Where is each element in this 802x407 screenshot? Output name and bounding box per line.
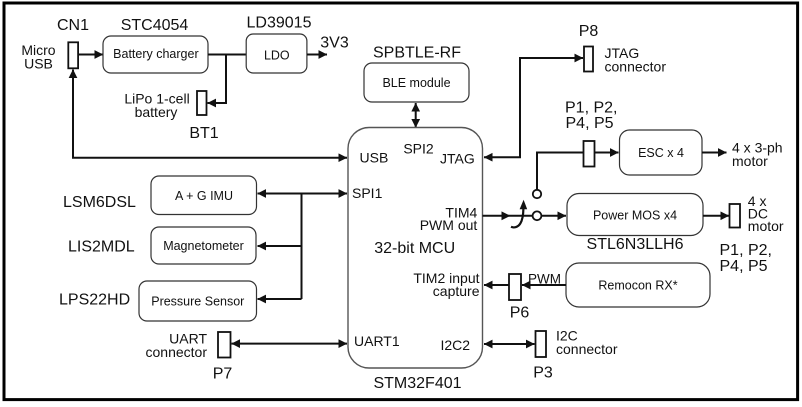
svg-text:P3: P3 — [533, 365, 553, 382]
wire P6 to MCU TIM2 — [484, 284, 509, 286]
switch lever arrow — [511, 200, 527, 228]
svg-text:JTAG: JTAG — [440, 151, 475, 167]
block U_press LPS22HD Pressure Sensor — [139, 281, 257, 321]
wire connector to ESC — [595, 152, 619, 154]
battery BT1 — [197, 91, 207, 115]
svg-text:battery: battery — [135, 104, 178, 120]
svg-text:connector: connector — [605, 59, 667, 75]
svg-text:capture: capture — [433, 283, 480, 299]
wire LDO to 3V3 — [307, 54, 327, 56]
svg-text:PWM out: PWM out — [420, 217, 478, 233]
wire upper contact to ESC connector — [537, 153, 584, 190]
block U_ldo LD39015 LDO — [246, 34, 307, 73]
wire junction to battery BT1 — [208, 55, 227, 104]
svg-text:LDO: LDO — [264, 49, 290, 63]
block Remocon RX* — [566, 263, 710, 307]
connector P1 P2 P4 P5 (ESC) — [584, 141, 595, 167]
svg-text:BLE module: BLE module — [382, 76, 450, 90]
label JTAG connector — [605, 45, 667, 75]
wire charger to LDO — [208, 54, 247, 56]
label P1, P2, P4, P5 (DC) — [720, 242, 772, 275]
svg-text:STL6N3LLH6: STL6N3LLH6 — [587, 236, 684, 253]
svg-text:P4, P5: P4, P5 — [566, 115, 614, 132]
svg-text:CN1: CN1 — [57, 17, 89, 34]
wire CN1 to battery charger — [79, 54, 104, 56]
block ESC x 4 — [620, 130, 703, 175]
svg-text:connector: connector — [146, 344, 208, 360]
wire JTAG: MCU to P8 — [484, 58, 583, 157]
label 4 x 3-ph motor — [732, 140, 783, 169]
wire lower contact to Power MOS — [541, 215, 566, 217]
svg-text:Power MOS x4: Power MOS x4 — [593, 209, 677, 223]
switch contact lower — [533, 211, 542, 220]
svg-text:SPBTLE-RF: SPBTLE-RF — [373, 45, 461, 62]
MCU U1 STM32F401 32-bit MCU — [348, 128, 483, 369]
svg-text:Remocon RX*: Remocon RX* — [598, 279, 677, 293]
label 4 x DC motor — [748, 193, 784, 234]
svg-text:SPI1: SPI1 — [352, 185, 383, 201]
connector P8 — [584, 47, 593, 72]
wire SPI1 tap to pressure sensor — [258, 298, 302, 300]
wire SPI1 bus vertical — [301, 194, 303, 300]
svg-text:BT1: BT1 — [189, 125, 218, 142]
svg-text:P1, P2,: P1, P2, — [565, 100, 617, 117]
svg-text:connector: connector — [556, 341, 618, 357]
connector P7 (UART) — [218, 332, 231, 358]
block U_charger STC4054 battery charger — [103, 36, 208, 73]
svg-text:PWM: PWM — [528, 272, 561, 287]
svg-text:motor: motor — [732, 153, 768, 169]
svg-text:P7: P7 — [213, 366, 233, 383]
arrowhead on TIM4 wire — [502, 211, 511, 220]
block U_ble SPBTLE-RF BLE module — [364, 63, 469, 102]
svg-text:P8: P8 — [579, 23, 599, 40]
wire Remocon to P6 — [522, 284, 566, 286]
svg-text:USB: USB — [24, 56, 53, 72]
pin TIM2 input capture — [413, 270, 479, 299]
connector P6 — [509, 274, 521, 300]
svg-text:SPI2: SPI2 — [403, 141, 434, 157]
connector P3 — [536, 331, 547, 357]
block U_mag LIS2MDL Magnetometer — [151, 227, 256, 264]
svg-text:3V3: 3V3 — [320, 35, 349, 52]
pin TIM4 PWM out — [420, 204, 478, 233]
svg-text:P1, P2,: P1, P2, — [720, 242, 772, 259]
block U_imu LSM6DSL A + G IMU — [151, 176, 257, 215]
svg-text:Magnetometer: Magnetometer — [163, 239, 244, 253]
switch contact upper — [533, 190, 541, 198]
svg-text:UART1: UART1 — [354, 333, 400, 349]
svg-text:32-bit MCU: 32-bit MCU — [374, 240, 455, 257]
wire SPI1 bus IMU to MCU — [258, 193, 348, 195]
wire ESC to 3-ph motor — [702, 152, 727, 154]
svg-text:I2C2: I2C2 — [441, 337, 471, 353]
svg-text:ESC x 4: ESC x 4 — [638, 146, 684, 160]
svg-text:A + G IMU: A + G IMU — [175, 189, 233, 203]
svg-text:Pressure Sensor: Pressure Sensor — [151, 295, 244, 309]
label UART connector — [146, 331, 208, 361]
label P1, P2, P4, P5 (ESC) — [565, 100, 617, 133]
svg-text:LIS2MDL: LIS2MDL — [68, 239, 135, 256]
wire SPI1 tap to magnetometer — [258, 245, 302, 247]
connector DC motor — [730, 204, 741, 228]
svg-text:P4, P5: P4, P5 — [720, 258, 768, 275]
block Power MOS x4 STL6N3LLH6 — [567, 194, 703, 236]
wire Power MOS to DC motor connector — [703, 215, 729, 217]
wire TIM4 PWM out of MCU — [483, 215, 533, 217]
wire USB: MCU to Micro USB connector — [73, 70, 347, 158]
label Micro USB — [21, 42, 55, 72]
svg-text:STC4054: STC4054 — [121, 17, 189, 34]
svg-text:P6: P6 — [510, 305, 530, 322]
svg-text:USB: USB — [360, 149, 389, 165]
wire I2C2: MCU to P3 — [484, 343, 535, 345]
label LiPo 1-cell battery — [124, 91, 189, 121]
svg-text:Battery charger: Battery charger — [113, 47, 198, 61]
connector CN1 (Micro USB) — [68, 42, 78, 68]
svg-text:LD39015: LD39015 — [247, 15, 312, 32]
label I2C connector — [556, 328, 618, 358]
svg-text:STM32F401: STM32F401 — [373, 375, 461, 392]
wire SPI2 bus BLE to MCU — [415, 103, 417, 128]
wire UART1: P7 to MCU — [232, 343, 348, 345]
svg-text:LSM6DSL: LSM6DSL — [63, 194, 136, 211]
svg-text:LPS22HD: LPS22HD — [59, 292, 130, 309]
svg-text:motor: motor — [748, 218, 784, 234]
